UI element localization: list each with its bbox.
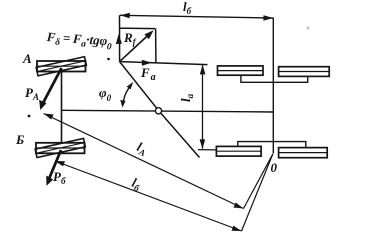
svg-text:Rf: Rf: [123, 30, 137, 47]
label l_b top: [183, 0, 192, 16]
axle bracket bottom pair: [238, 142, 306, 148]
svg-text:lб: lб: [183, 0, 192, 16]
label F_a: [140, 65, 156, 83]
svg-text:0: 0: [271, 160, 278, 175]
label phi_0 lower: [99, 85, 112, 103]
wheel A: [36, 57, 86, 76]
rear wheel pair bottom: left tyre: [216, 146, 261, 156]
rear wheel pair bottom: right tyre: [279, 148, 328, 158]
force arrow F_a with extension line: [120, 60, 208, 66]
dimension l_A diagonal: [44, 114, 244, 209]
axle bracket top pair: [241, 75, 308, 82]
label P_A: [25, 85, 39, 102]
label l_b bottom (rotated): [129, 175, 143, 194]
svg-text:Рб: Рб: [53, 169, 66, 186]
svg-text:lа: lа: [178, 93, 195, 102]
force arrow P_A: [39, 68, 61, 110]
svg-text:Fа: Fа: [140, 65, 156, 83]
angle arc phi_0 lower with arrows: [120, 82, 133, 108]
front axle line connecting wheels A and B: [61, 67, 63, 149]
rear wheel pair top: right tyre: [279, 67, 330, 77]
steered direction diagonal line: [120, 62, 200, 158]
svg-text:Б: Б: [15, 132, 24, 147]
dimension l_b top line: [120, 13, 273, 21]
dimension l_a vertical: [198, 65, 216, 150]
label Б: [15, 132, 24, 147]
faint speck top right: [306, 26, 309, 29]
label l_a (rotated): [178, 93, 195, 102]
dimension l_b bottom diagonal: [55, 161, 242, 231]
svg-text:РА: РА: [25, 85, 39, 102]
label P_b: [53, 169, 66, 186]
resultant arrow R_f: [120, 30, 154, 61]
svg-text:φ0: φ0: [99, 85, 112, 103]
rear axle centre line: [272, 18, 274, 154]
svg-text:А: А: [22, 51, 32, 66]
stray ink dot: [28, 115, 31, 118]
F_delta vertical line with arrow: [116, 15, 122, 61]
svg-text:lА: lА: [134, 139, 149, 158]
rear wheel pair top: left tyre: [218, 66, 264, 75]
wheel B (Б): [35, 138, 85, 157]
point O leader lines: [242, 154, 273, 231]
label l_A (rotated): [134, 139, 149, 158]
label A: [22, 51, 32, 66]
pivot circle node: [155, 108, 161, 114]
force arrow P_b: [46, 150, 61, 186]
label R_f: [123, 30, 137, 47]
force parallelogram top and right sides: [120, 28, 156, 63]
machine longitudinal axis line: [62, 110, 274, 112]
formula F_delta = F_a tg phi_0: [45, 29, 113, 53]
stray dot below formula: [107, 58, 110, 61]
svg-text:Fδ = Fа·tgφ0: Fδ = Fа·tgφ0: [45, 29, 113, 53]
label O: [271, 160, 278, 175]
svg-text:lб: lб: [129, 175, 143, 194]
